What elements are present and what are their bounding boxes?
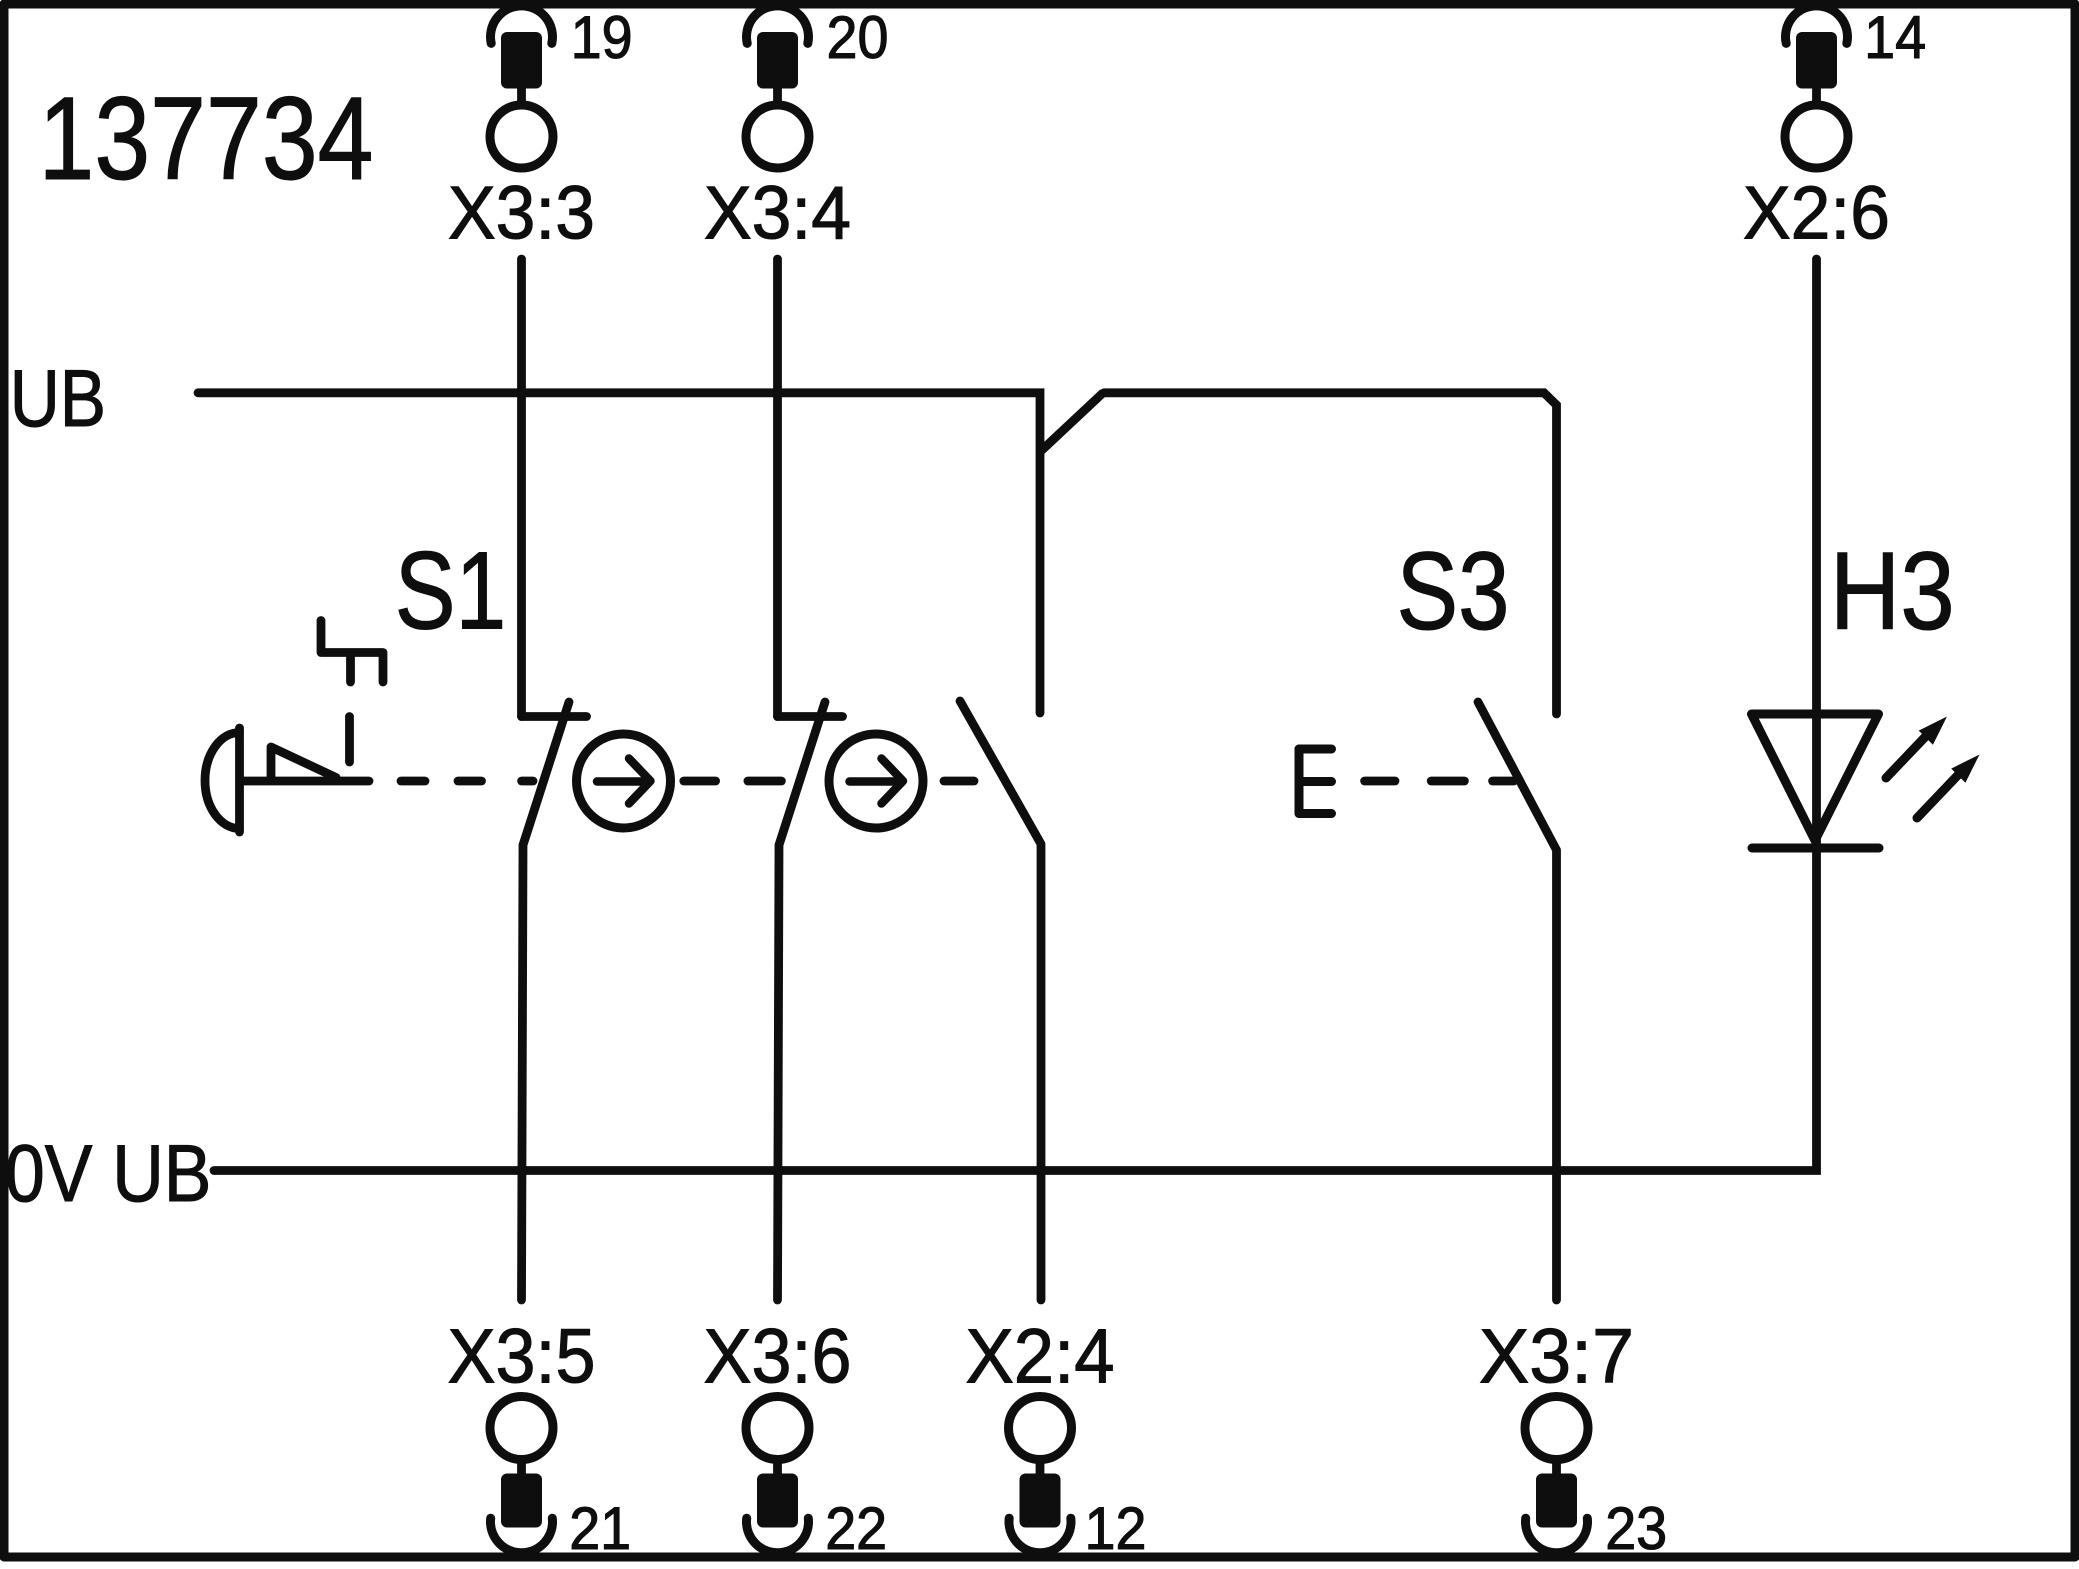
svg-text:19: 19	[571, 4, 633, 71]
actuator mushroom head	[205, 728, 240, 832]
wire branch to S3	[1104, 393, 1557, 714]
node X3:7 bottom connector pin	[1525, 1397, 1588, 1553]
svg-text:X3:6: X3:6	[704, 1314, 852, 1400]
positive-opening symbol 1	[577, 734, 671, 828]
svg-text:22: 22	[825, 1495, 887, 1562]
svg-text:S3: S3	[1397, 530, 1510, 653]
svg-text:X3:3: X3:3	[448, 171, 595, 255]
actuator lever	[242, 777, 369, 786]
node X2:6 top connector pin	[1785, 6, 1848, 168]
svg-text:137734: 137734	[39, 73, 374, 205]
svg-text:X2:4: X2:4	[966, 1314, 1115, 1400]
switch S1 contact 1 (NC)	[522, 702, 587, 1300]
wire X3:3 down	[517, 259, 526, 717]
label E (drawn strokes)	[1299, 749, 1332, 814]
svg-text:14: 14	[1864, 4, 1926, 71]
detent link dash	[345, 717, 354, 763]
mechanical link dashes S1	[401, 777, 974, 786]
actuator wedge triangle	[271, 747, 336, 778]
switch S1 contact 2 (NC)	[778, 702, 843, 1300]
svg-text:H3: H3	[1830, 530, 1955, 653]
svg-text:X2:6: X2:6	[1743, 171, 1890, 255]
svg-text:X3:7: X3:7	[1479, 1314, 1634, 1400]
wire 0V UB bus + H3 column	[214, 259, 1817, 1171]
positive-opening symbol 2	[829, 734, 923, 828]
wire X3:4 down	[773, 259, 782, 717]
node X3:4 top connector pin	[746, 6, 809, 168]
svg-text:UB: UB	[10, 354, 106, 444]
svg-text:20: 20	[827, 4, 889, 71]
wire UB bus	[198, 393, 1040, 713]
svg-text:S1: S1	[395, 530, 507, 653]
switch S1 contact 3 (NO)	[960, 701, 1041, 1300]
svg-text:X3:5: X3:5	[448, 1314, 596, 1400]
mechanical link dashes S3	[1365, 777, 1514, 786]
wire branch diagonal	[1042, 394, 1102, 450]
svg-text:21: 21	[569, 1495, 631, 1562]
svg-text:X3:4: X3:4	[704, 171, 851, 255]
svg-text:0V UB: 0V UB	[5, 1129, 211, 1219]
svg-text:23: 23	[1605, 1495, 1667, 1562]
switch S3 contact (NO)	[1478, 702, 1557, 1300]
detent latch symbol	[321, 621, 383, 683]
node X3:3 top connector pin	[490, 6, 553, 168]
node X2:4 bottom connector pin	[1009, 1397, 1072, 1553]
node X3:5 bottom connector pin	[490, 1397, 553, 1553]
node X3:6 bottom connector pin	[746, 1397, 809, 1553]
svg-text:12: 12	[1085, 1495, 1147, 1562]
LED H3	[1752, 714, 1980, 848]
